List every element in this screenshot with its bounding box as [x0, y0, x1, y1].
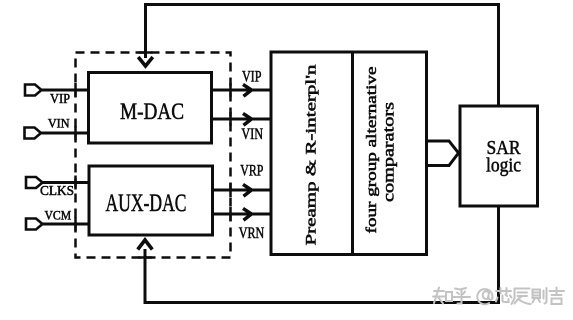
svg-text:VRP: VRP — [240, 163, 263, 180]
svg-text:CLKS: CLKS — [40, 183, 74, 198]
svg-text:logic: logic — [486, 156, 521, 177]
svg-text:VIP: VIP — [50, 92, 70, 107]
wire VRN from AUX-DAC to preamp — [213, 208, 272, 242]
dashed DAC boundary box — [76, 53, 231, 258]
svg-text:VRN: VRN — [239, 225, 265, 242]
wire VIN from M-DAC to preamp — [212, 113, 272, 143]
pin VCM input terminal — [26, 207, 89, 229]
svg-text:AUX-DAC: AUX-DAC — [106, 190, 187, 217]
xin — [496, 288, 512, 302]
pin VIP input terminal — [25, 85, 89, 108]
hu — [453, 288, 470, 304]
arrowhead down into M-DAC — [138, 57, 153, 66]
svg-text:VIN: VIN — [241, 126, 263, 143]
block AUX-DAC — [89, 166, 213, 235]
dash ticks where wires cross dashed boundary — [76, 53, 231, 258]
wire VRP from AUX-DAC to preamp — [213, 163, 272, 197]
wire VIP from M-DAC to preamp — [212, 68, 272, 96]
zhi — [433, 288, 452, 304]
at-sign — [477, 289, 492, 304]
chen — [512, 289, 531, 305]
svg-text:M-DAC: M-DAC — [120, 99, 184, 124]
pin CLKS input terminal — [26, 177, 89, 198]
block preamp and R-interpolation — [271, 52, 353, 255]
wire bottom feedback loop from SAR logic to AUX-DAC — [145, 206, 499, 303]
wire top feedback loop from SAR logic to M-DAC — [146, 5, 499, 108]
ze — [533, 288, 547, 304]
ji — [550, 288, 565, 305]
svg-text:VIN: VIN — [48, 116, 70, 131]
block four group alternative comparators — [353, 52, 427, 255]
block SAR logic — [460, 106, 538, 206]
svg-text:VCM: VCM — [44, 207, 71, 222]
watermark zhihu logo text — [433, 288, 564, 305]
svg-text:Preamp & R-interpl'n: Preamp & R-interpl'n — [303, 64, 319, 246]
block M-DAC — [89, 73, 212, 144]
pin VIN input terminal — [25, 116, 89, 139]
svg-text:four group alternative: four group alternative — [364, 67, 380, 234]
connector chevron from comparators to SAR logic — [427, 141, 459, 166]
arrowhead up into AUX-DAC — [138, 240, 153, 250]
svg-text:comparators: comparators — [381, 102, 398, 202]
svg-text:VIP: VIP — [242, 68, 262, 85]
